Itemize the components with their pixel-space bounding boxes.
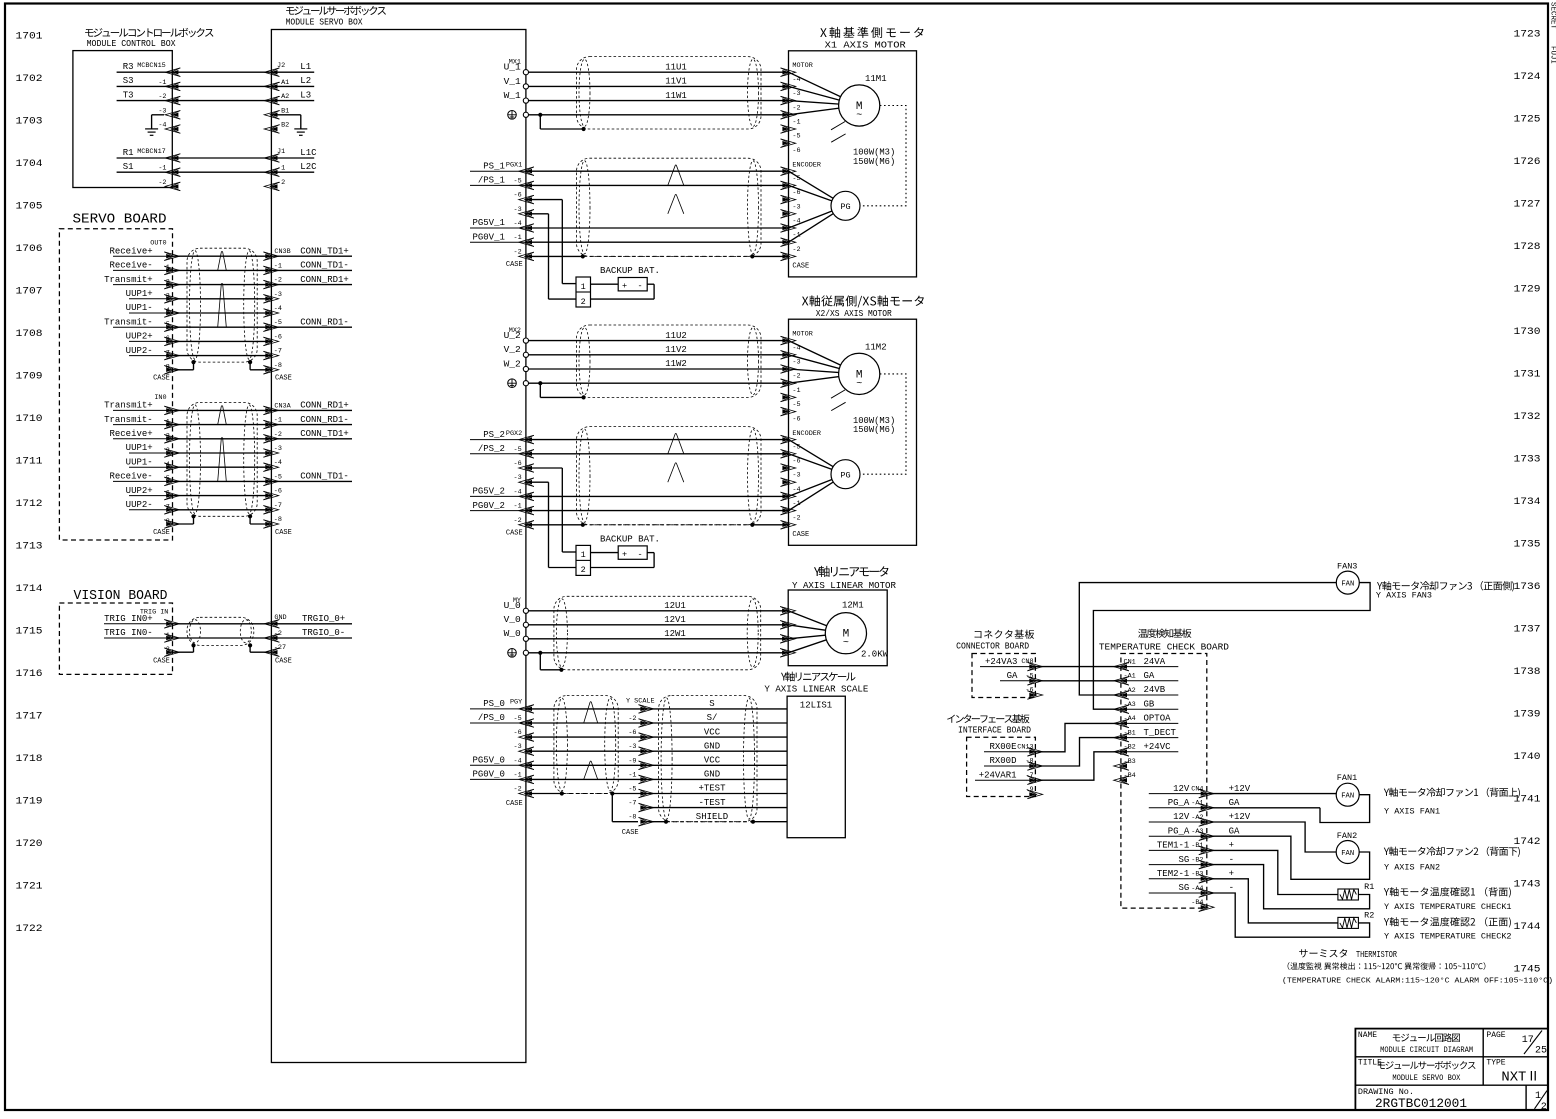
connector board title: [956, 630, 1034, 652]
connector CN3A pins: [250, 401, 352, 537]
svg-text:-9: -9: [628, 757, 636, 765]
FAN1 supply wire +12V: [1207, 793, 1336, 795]
svg-text:-B2: -B2: [1191, 856, 1203, 864]
svg-text:PS_2: PS_2: [483, 430, 505, 440]
svg-text:Y AXIS FAN2: Y AXIS FAN2: [1384, 862, 1440, 872]
svg-text:S/: S/: [707, 713, 718, 723]
svg-text:/PS_2: /PS_2: [478, 444, 505, 454]
servo board IN0 wire stubs: [113, 410, 172, 509]
svg-text:NXT: NXT: [1501, 1070, 1526, 1086]
encoder shield X1: [526, 254, 789, 258]
svg-text:-B2: -B2: [1124, 744, 1136, 752]
svg-text:4: 4: [166, 307, 170, 315]
connector MCBCN17 pins: [117, 148, 181, 191]
svg-text:+12V: +12V: [1229, 784, 1251, 794]
X1 axis motor title: [820, 27, 923, 51]
svg-text:FAN: FAN: [1341, 793, 1354, 801]
svg-text:-1: -1: [158, 165, 166, 173]
svg-text:1725: 1725: [1514, 114, 1541, 126]
title block TYPE cell: [1486, 1059, 1535, 1086]
svg-text:11U1: 11U1: [665, 62, 687, 72]
svg-text:1722: 1722: [16, 923, 43, 935]
svg-text:1744: 1744: [1514, 921, 1541, 933]
svg-text:+12V: +12V: [1229, 812, 1251, 822]
PGY shield: [526, 791, 647, 795]
svg-text:-5: -5: [514, 177, 522, 185]
svg-text:SG: SG: [1178, 883, 1189, 893]
svg-text:11M2: 11M2: [865, 342, 887, 352]
svg-text:CASE: CASE: [506, 529, 523, 537]
FAN2 label: [1384, 846, 1520, 872]
X2 axis motor title: [802, 295, 924, 319]
title block TITLE cell: [1358, 1059, 1476, 1083]
servo board cable IN0 wires: [172, 410, 271, 509]
svg-text:12LIS1: 12LIS1: [800, 701, 832, 711]
svg-text:UUP2-: UUP2-: [126, 500, 153, 510]
resistor R1 (thermistor): [1338, 882, 1374, 900]
svg-text:BACKUP BAT.: BACKUP BAT.: [600, 266, 660, 276]
svg-text:-3: -3: [792, 359, 800, 367]
left margin row numbers 1701-1722: [16, 31, 43, 936]
svg-text:2: 2: [581, 565, 586, 575]
svg-text:-6: -6: [792, 147, 800, 155]
svg-text:-3: -3: [158, 107, 166, 115]
svg-text:CASE: CASE: [153, 375, 170, 383]
Y motor M circle 12M1: [788, 601, 888, 660]
motor-encoder shaft coupling X2: [860, 374, 906, 474]
svg-text:1737: 1737: [1514, 624, 1541, 636]
svg-text:FAN2: FAN2: [1337, 831, 1357, 841]
svg-text:-9: -9: [1025, 786, 1033, 794]
svg-text:2RGTBC012001: 2RGTBC012001: [1375, 1096, 1467, 1111]
svg-text:CONN_RD1+: CONN_RD1+: [300, 401, 349, 411]
svg-text:+: +: [622, 281, 627, 291]
svg-text:-A3: -A3: [1191, 828, 1203, 836]
svg-text:S: S: [709, 699, 714, 709]
svg-text:U_2: U_2: [504, 330, 521, 341]
Y motor box 12M1: [788, 590, 887, 666]
svg-text:-6: -6: [628, 729, 636, 737]
svg-text:-A3: -A3: [1124, 701, 1136, 709]
power shield bond X2: [538, 381, 586, 399]
wires R3/S3/T3 to J2 connector: [172, 72, 271, 100]
svg-text:2: 2: [1541, 1102, 1547, 1113]
svg-text:-2: -2: [274, 277, 282, 285]
svg-text:-7: -7: [628, 800, 636, 808]
svg-text:-2: -2: [628, 715, 636, 723]
svg-text:1735: 1735: [1514, 539, 1541, 551]
title block DRAWING cell: [1358, 1087, 1467, 1111]
svg-text:1734: 1734: [1514, 496, 1541, 508]
svg-text:PS_0: PS_0: [483, 699, 505, 709]
svg-text:1704: 1704: [16, 158, 43, 170]
svg-text:-7: -7: [274, 502, 282, 510]
svg-text:-1: -1: [514, 503, 522, 511]
svg-text:1717: 1717: [16, 711, 43, 723]
svg-text:-1: -1: [628, 771, 636, 779]
svg-text:-7: -7: [274, 348, 282, 356]
svg-text:PG0V_2: PG0V_2: [472, 501, 504, 511]
svg-text:U_1: U_1: [504, 62, 521, 73]
svg-text:-3: -3: [792, 203, 800, 211]
svg-text:GND: GND: [704, 770, 720, 780]
motor box 11M2: [789, 319, 917, 545]
FAN3 supply wire 24VB: [1079, 583, 1336, 695]
encoder PG circle X2: [789, 440, 861, 511]
svg-text:FUJI: FUJI: [1549, 46, 1556, 64]
svg-text:~: ~: [856, 379, 862, 390]
svg-text:V_1: V_1: [504, 76, 521, 87]
motor power rating X1: [853, 148, 895, 167]
svg-text:VCC: VCC: [704, 756, 721, 766]
svg-text:CONN_TD1-: CONN_TD1-: [300, 472, 349, 482]
svg-text:ENCODER: ENCODER: [792, 162, 821, 170]
svg-text:1: 1: [166, 632, 170, 640]
connector Y SCALE pins: [622, 697, 655, 837]
svg-text:CASE: CASE: [506, 261, 523, 269]
svg-text:VISION BOARD: VISION BOARD: [74, 588, 168, 604]
svg-text:-4: -4: [514, 488, 522, 496]
svg-text:PG0V_0: PG0V_0: [472, 770, 504, 780]
svg-text:-A2: -A2: [1191, 814, 1203, 822]
svg-text:+: +: [622, 549, 627, 559]
svg-text:2.0KW: 2.0KW: [861, 650, 889, 660]
svg-text:-2: -2: [277, 179, 285, 187]
svg-text:-B2: -B2: [277, 122, 289, 130]
svg-text:-: -: [637, 281, 642, 291]
svg-text:1719: 1719: [16, 796, 43, 808]
svg-text:INTERFACE BOARD: INTERFACE BOARD: [958, 725, 1031, 736]
servo board outline: [59, 229, 172, 540]
svg-text:-6: -6: [792, 415, 800, 423]
svg-text:12V: 12V: [1173, 784, 1190, 794]
motor power rating X2: [853, 416, 895, 435]
FAN1 label: [1384, 787, 1520, 816]
svg-text:-1: -1: [792, 119, 800, 127]
svg-text:24VA: 24VA: [1144, 657, 1166, 667]
connector CN3B pins: [250, 246, 352, 382]
svg-text:12W1: 12W1: [664, 629, 686, 639]
svg-text:Transmit-: Transmit-: [104, 415, 153, 425]
FAN2 return wire GA: [1207, 836, 1370, 879]
svg-text:-6: -6: [1025, 687, 1033, 695]
svg-text:PG5V_0: PG5V_0: [472, 756, 504, 766]
svg-text:MODULE SERVO BOX: MODULE SERVO BOX: [286, 17, 363, 28]
connector PGY pins: [470, 698, 534, 808]
control box ground: [145, 115, 164, 136]
svg-text:FAN: FAN: [1341, 850, 1354, 858]
connector MX2 terminals: [504, 327, 529, 388]
PGY twisted pair marks: [584, 702, 598, 780]
connector TRGIO pins: [250, 614, 352, 666]
connector MY terminals: [504, 597, 529, 657]
svg-text:V_2: V_2: [504, 344, 521, 355]
svg-text:TRIG IN0-: TRIG IN0-: [104, 628, 153, 638]
svg-text:24VB: 24VB: [1144, 685, 1166, 695]
FAN3 return wire GB: [1093, 583, 1370, 710]
svg-text:-5: -5: [514, 715, 522, 723]
svg-text:V_0: V_0: [504, 614, 521, 625]
svg-text:R1: R1: [123, 148, 134, 158]
svg-text:12V: 12V: [1173, 812, 1190, 822]
connector PGX2 pins: [470, 430, 534, 538]
servo board connector IN0 pins: [104, 394, 193, 537]
title block outline: [1355, 1029, 1548, 1110]
svg-text:6: 6: [166, 489, 170, 497]
svg-text:ENCODER: ENCODER: [792, 430, 821, 438]
svg-text:+TEST: +TEST: [698, 784, 726, 794]
svg-text:-5: -5: [514, 446, 522, 454]
svg-text:CASE: CASE: [792, 262, 809, 270]
motor box 11M1: [789, 51, 917, 277]
svg-text:1702: 1702: [16, 73, 43, 85]
Y axis linear motor title: [792, 566, 896, 591]
svg-text:1718: 1718: [16, 753, 43, 765]
svg-text:-TEST: -TEST: [698, 798, 726, 808]
svg-text:-: -: [637, 549, 642, 559]
svg-text:+24VC: +24VC: [1144, 742, 1172, 752]
svg-text:-2: -2: [792, 104, 800, 112]
servo box side ground: [271, 115, 307, 136]
svg-text:VCC: VCC: [704, 727, 721, 737]
svg-text:1738: 1738: [1514, 666, 1541, 678]
svg-text:-6: -6: [274, 488, 282, 496]
svg-text:T_DECT: T_DECT: [1144, 728, 1177, 738]
svg-text:1721: 1721: [16, 881, 43, 893]
svg-text:-: -: [1229, 855, 1234, 865]
svg-text:L1: L1: [300, 62, 311, 72]
svg-text:-5: -5: [274, 473, 282, 481]
svg-text:UUP2+: UUP2+: [126, 486, 153, 496]
svg-text:-1: -1: [277, 165, 285, 173]
svg-text:-8: -8: [628, 814, 636, 822]
svg-text:1723: 1723: [1514, 29, 1541, 41]
svg-text:UUP1-: UUP1-: [126, 457, 153, 467]
encoder shield X2: [526, 523, 789, 527]
svg-text:L2: L2: [300, 76, 311, 86]
vision cable tube: [187, 617, 254, 647]
svg-text:THERMISTOR: THERMISTOR: [1356, 950, 1397, 960]
svg-text:-5: -5: [628, 786, 636, 794]
svg-text:1740: 1740: [1514, 751, 1541, 763]
backup battery circuit X2: [526, 468, 660, 575]
motor M circle 11M1: [789, 72, 887, 142]
svg-text:+24VA3: +24VA3: [985, 657, 1017, 667]
svg-text:CONN_TD1+: CONN_TD1+: [300, 429, 349, 439]
svg-text:-3: -3: [792, 472, 800, 480]
svg-text:-1: -1: [514, 234, 522, 242]
R2 label: [1384, 917, 1512, 941]
svg-text:W_1: W_1: [504, 90, 521, 101]
svg-text:-1: -1: [514, 771, 522, 779]
svg-text:GA: GA: [1229, 826, 1240, 836]
encoder PG circle X1: [789, 171, 861, 242]
svg-text:150W(M6): 150W(M6): [853, 425, 895, 435]
svg-text:TRIG IN0+: TRIG IN0+: [104, 614, 153, 624]
svg-text:SHIELD: SHIELD: [696, 812, 728, 822]
svg-text:CASE: CASE: [506, 800, 523, 808]
svg-text:W_0: W_0: [504, 628, 521, 639]
svg-text:CASE: CASE: [275, 658, 292, 666]
svg-text:Y SCALE: Y SCALE: [626, 697, 655, 705]
svg-text:-8: -8: [274, 362, 282, 370]
module servo box outline: [271, 30, 526, 1063]
svg-text:8: 8: [166, 364, 170, 372]
connector PGX1 pins: [470, 161, 534, 269]
svg-text:PG: PG: [840, 470, 850, 480]
svg-text:Receive+: Receive+: [109, 246, 152, 256]
interface board outline: [967, 737, 1036, 796]
PGY wires to Y SCALE connector: [526, 709, 647, 780]
svg-text:J1: J1: [277, 148, 285, 156]
svg-text:11W2: 11W2: [665, 359, 687, 369]
twisted pair marks IN0: [218, 406, 227, 482]
svg-text:CONN_TD1-: CONN_TD1-: [300, 261, 349, 271]
motor connector pins X1: [781, 62, 813, 155]
cable tube IN0: [187, 402, 257, 518]
svg-text:CASE: CASE: [153, 658, 170, 666]
svg-text:-8: -8: [1025, 758, 1033, 766]
vision board TRIG IN connector pins: [104, 608, 194, 665]
connector J2 pins: [264, 62, 314, 133]
svg-text:Receive-: Receive-: [109, 472, 152, 482]
encoder connector pins X1 motor side: [781, 162, 821, 271]
vision board trigger wires: [172, 624, 271, 638]
svg-text:-B4: -B4: [1124, 772, 1136, 780]
svg-text:-A4: -A4: [1191, 885, 1203, 893]
svg-text:MOTOR: MOTOR: [792, 62, 812, 70]
svg-text:TEM2-1: TEM2-1: [1157, 869, 1189, 879]
temp board connector CN1 pins: [1114, 657, 1179, 785]
svg-text:7: 7: [166, 349, 170, 357]
svg-text:OPTOA: OPTOA: [1144, 714, 1172, 724]
svg-text:S1: S1: [123, 162, 134, 172]
svg-text:1708: 1708: [16, 328, 43, 340]
svg-text:Transmit-: Transmit-: [104, 317, 153, 327]
svg-text:FAN1: FAN1: [1337, 773, 1357, 783]
svg-text:+24VAR1: +24VAR1: [979, 770, 1017, 780]
title block PAGE cell: [1486, 1031, 1547, 1057]
svg-text:Y AXIS TEMPERATURE CHECK2: Y AXIS TEMPERATURE CHECK2: [1384, 931, 1512, 941]
svg-text:Receive+: Receive+: [109, 429, 152, 439]
svg-text:-7: -7: [1025, 772, 1033, 780]
svg-text:MCBCN17: MCBCN17: [137, 148, 166, 156]
svg-text:1716: 1716: [16, 668, 43, 680]
svg-text:SERVO BOARD: SERVO BOARD: [73, 212, 167, 228]
motor-encoder shaft coupling X1: [860, 106, 906, 206]
Y power shield bond: [538, 651, 563, 672]
svg-text:MCBCN15: MCBCN15: [137, 62, 166, 70]
svg-text:PS_1: PS_1: [483, 161, 505, 171]
staircase +24VAR1 to +24VC: [1035, 752, 1121, 780]
svg-text:-5: -5: [792, 133, 800, 141]
svg-text:-3: -3: [514, 474, 522, 482]
svg-text:5: 5: [166, 475, 170, 483]
svg-text:-3: -3: [628, 743, 636, 751]
svg-text:FAN: FAN: [1341, 581, 1354, 589]
svg-text:8: 8: [166, 518, 170, 526]
svg-text:UUP2-: UUP2-: [126, 346, 153, 356]
motor connector pins X2: [781, 330, 813, 423]
staircase RX00E to OPTOA: [1035, 723, 1121, 751]
svg-text:-A2: -A2: [1124, 687, 1136, 695]
svg-text:PG5V_2: PG5V_2: [472, 487, 504, 497]
svg-text:-1: -1: [158, 79, 166, 87]
svg-text:MODULE CIRCUIT DIAGRAM: MODULE CIRCUIT DIAGRAM: [1380, 1045, 1473, 1055]
fan FAN3: [1336, 562, 1359, 595]
svg-text:Transmit+: Transmit+: [104, 275, 153, 285]
svg-text:-27: -27: [274, 644, 286, 652]
svg-text:-A1: -A1: [1124, 673, 1136, 681]
svg-text:-2: -2: [514, 786, 522, 794]
svg-text:CONN_RD1-: CONN_RD1-: [300, 317, 349, 327]
svg-text:-3: -3: [514, 206, 522, 214]
svg-text:-3: -3: [514, 743, 522, 751]
svg-text:1743: 1743: [1514, 879, 1541, 891]
encoder twisted pair marks X2: [668, 433, 684, 482]
svg-text:1: 1: [166, 418, 170, 426]
svg-text:TEMPERATURE CHECK BOARD: TEMPERATURE CHECK BOARD: [1099, 642, 1229, 653]
Y scale box 12LIS1: [787, 696, 845, 838]
svg-text:CN3A: CN3A: [274, 402, 291, 410]
svg-text:GB: GB: [1144, 699, 1155, 709]
svg-text:-3: -3: [274, 291, 282, 299]
svg-text:1745: 1745: [1514, 964, 1541, 976]
svg-text:CN3B: CN3B: [274, 248, 290, 256]
module control box outline: [73, 51, 172, 188]
svg-text:-4: -4: [514, 757, 522, 765]
svg-text:L2C: L2C: [300, 162, 317, 172]
svg-text:/PS_1: /PS_1: [478, 176, 505, 186]
backup battery circuit X1: [526, 200, 660, 307]
svg-text:1736: 1736: [1514, 581, 1541, 593]
svg-text:1711: 1711: [16, 456, 43, 468]
svg-text:1729: 1729: [1514, 284, 1541, 296]
module servo box title: [286, 6, 386, 28]
svg-text:-2: -2: [792, 373, 800, 381]
svg-text:MODULE CONTROL BOX: MODULE CONTROL BOX: [87, 38, 176, 49]
right margin row numbers 1723-1745: [1514, 29, 1541, 976]
svg-text:R2: R2: [1364, 911, 1374, 921]
svg-text:+: +: [1229, 869, 1234, 879]
svg-text:11U2: 11U2: [665, 331, 687, 341]
svg-text:11V1: 11V1: [665, 77, 687, 87]
svg-text:IN0: IN0: [154, 394, 166, 402]
encoder twisted pair marks X1: [668, 165, 684, 214]
svg-text:U_0: U_0: [504, 600, 521, 611]
svg-text:1730: 1730: [1514, 326, 1541, 338]
svg-text:6: 6: [166, 335, 170, 343]
power cable tube X2: [577, 325, 762, 397]
svg-text:PGX2: PGX2: [506, 430, 522, 438]
svg-text:-2: -2: [158, 93, 166, 101]
svg-text:2: 2: [166, 646, 170, 654]
svg-text:PGY: PGY: [510, 698, 522, 706]
Y axis linear scale title: [764, 672, 868, 695]
svg-text:-B3: -B3: [1191, 871, 1203, 879]
Y motor pins: [780, 607, 795, 658]
svg-text:-6: -6: [514, 192, 522, 200]
svg-text:Y AXIS TEMPERATURE CHECK1: Y AXIS TEMPERATURE CHECK1: [1384, 902, 1512, 912]
svg-text:1741: 1741: [1514, 794, 1541, 806]
R2 wire TEM2-1: [1207, 879, 1338, 923]
svg-text:UUP2+: UUP2+: [126, 332, 153, 342]
svg-text:150W(M6): 150W(M6): [853, 157, 895, 167]
svg-text:CONN_TD1+: CONN_TD1+: [300, 246, 349, 256]
svg-text:-6: -6: [514, 460, 522, 468]
svg-text:T3: T3: [123, 90, 134, 100]
R1 wire SG: [1207, 865, 1370, 909]
